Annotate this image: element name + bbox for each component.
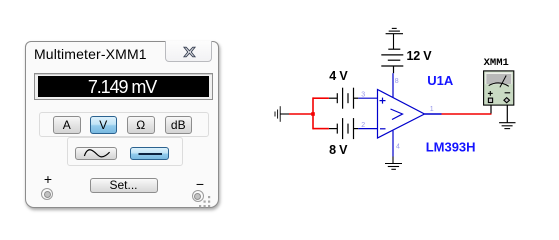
op-amp U1A comparator xyxy=(378,90,425,139)
ground top xyxy=(386,28,403,49)
multimeter dialog window XMM1 xyxy=(25,41,219,208)
battery V2 4V xyxy=(329,88,358,109)
resize grip xyxy=(198,195,212,209)
wire red output xyxy=(442,113,492,115)
button A xyxy=(53,116,81,134)
svg-text:4 V: 4 V xyxy=(329,69,348,83)
XMM1 lead minus xyxy=(506,106,508,123)
button Ohm xyxy=(127,116,155,134)
svg-text:LM393H: LM393H xyxy=(426,140,476,155)
svg-text:3: 3 xyxy=(361,91,365,98)
pin 4 xyxy=(392,131,394,157)
pin 3 xyxy=(358,97,377,99)
title text xyxy=(34,46,147,62)
XMM1 lead plus xyxy=(490,106,492,114)
Set button xyxy=(90,178,158,193)
close button xyxy=(165,41,212,62)
minus terminal jack xyxy=(192,190,204,202)
minus terminal label xyxy=(194,176,206,192)
wire red ground to junction xyxy=(289,113,314,115)
ground left xyxy=(275,106,289,122)
svg-text:1: 1 xyxy=(430,106,434,113)
svg-text:XMM1: XMM1 xyxy=(484,57,509,69)
pin 2 xyxy=(358,128,377,130)
svg-text:8: 8 xyxy=(395,78,399,85)
plus terminal jack xyxy=(41,188,53,200)
display black screen with reading 7.149 mV xyxy=(38,76,209,97)
svg-text:4: 4 xyxy=(396,143,400,150)
svg-text:8 V: 8 V xyxy=(329,143,348,157)
wire red vertical xyxy=(312,97,314,129)
pin 1 output xyxy=(425,113,442,115)
button V selected xyxy=(90,116,118,134)
group box waveform buttons xyxy=(67,137,183,166)
wire red to 4V xyxy=(313,97,329,99)
ground bottom under pin 4 xyxy=(385,157,402,170)
group box mode buttons xyxy=(39,112,209,137)
ground right xyxy=(499,123,515,129)
svg-text:12 V: 12 V xyxy=(407,49,433,63)
battery V3 8V xyxy=(329,118,358,139)
pin 8 xyxy=(392,73,394,97)
svg-text:2: 2 xyxy=(361,122,365,129)
node junction xyxy=(311,112,315,116)
button sine AC xyxy=(75,147,117,160)
instrument XMM1 icon xyxy=(484,71,514,105)
display bezel xyxy=(34,73,213,100)
button dB xyxy=(165,116,193,134)
wire red to 8V xyxy=(313,128,329,130)
svg-text:U1A: U1A xyxy=(427,73,454,88)
plus terminal label xyxy=(42,171,54,187)
button DC selected xyxy=(130,147,169,160)
battery V1 12V xyxy=(381,49,403,73)
